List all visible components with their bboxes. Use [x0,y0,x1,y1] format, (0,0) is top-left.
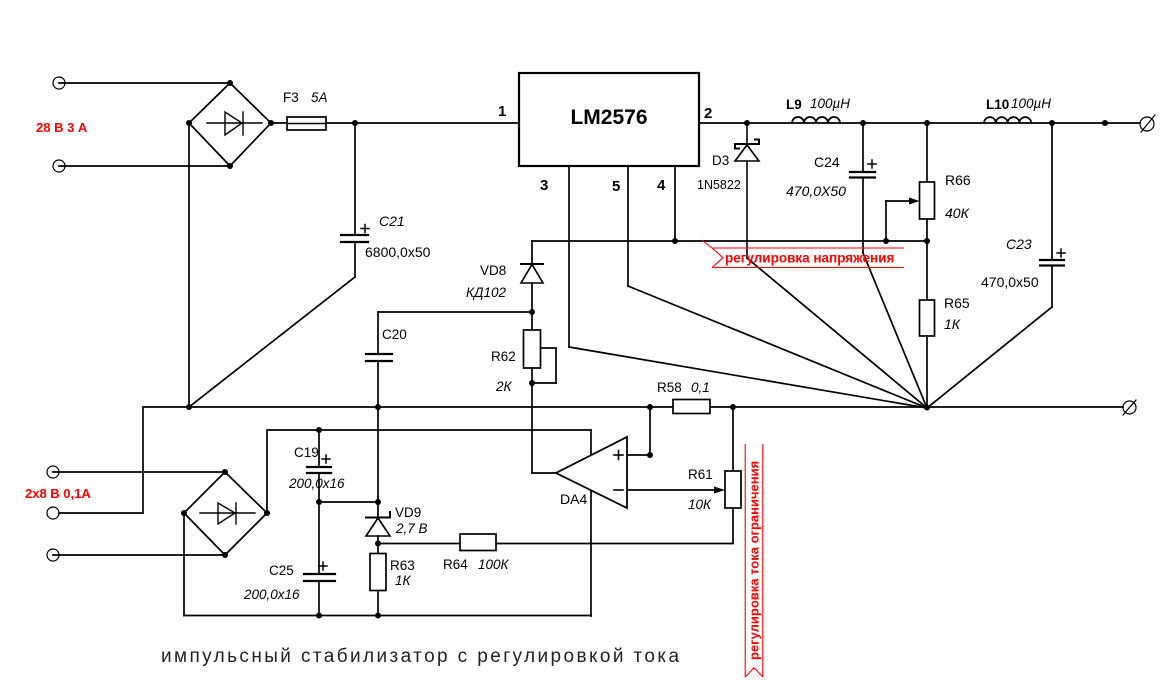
diode D3 1N5822 [735,123,759,258]
node R66 wiper to feedback [883,238,889,244]
wire C23 diagonal to star point [927,307,1052,408]
svg-text:C24: C24 [814,154,840,170]
svg-text:5A: 5A [311,90,328,105]
wire C25 bottom to rail [318,581,320,616]
wire R63 bottom to rail [377,591,379,616]
node bridge2 right [264,510,270,516]
node bus R58 right [730,404,736,410]
svg-text:C23: C23 [1006,236,1032,252]
inductor L9 [792,117,840,123]
node feedback R66 bottom [924,238,930,244]
R62 wiper rheostat link [532,348,556,383]
svg-text:R61: R61 [688,467,713,482]
pin 3 diagonal to star point [569,347,927,408]
pin 4 wire [674,166,676,241]
capacitor C20 [366,354,392,361]
svg-text:F3: F3 [283,90,299,105]
svg-text:200,0x16: 200,0x16 [243,587,300,602]
svg-text:1N5822: 1N5822 [697,178,741,192]
svg-text:R62: R62 [491,349,516,364]
bridge rectifier 2 diamond [184,472,267,555]
input terminal X1 bottom [53,160,65,172]
op-amp plus symbol [614,451,623,460]
wire C21 diagonal to ground bus [189,277,355,407]
resistor R63 [370,554,386,591]
node bridge1 bottom [227,163,233,169]
node VD9 R63 R64 [375,541,381,547]
wire terminal1 to bridge top [59,82,230,84]
output terminal top [1140,115,1155,132]
input terminal X2 a [47,466,59,478]
potentiometer R62 [524,330,541,368]
C24 plus sign [868,160,876,168]
wire VD8 to C20 node [531,283,533,330]
svg-text:3: 3 [540,177,548,194]
svg-text:КД102: КД102 [466,285,506,300]
svg-text:470,0X50: 470,0X50 [786,183,846,199]
svg-text:VD9: VD9 [395,505,421,520]
svg-text:R66: R66 [945,172,971,188]
node bridge2 top [222,469,228,475]
bottom rail wire [184,615,591,617]
svg-text:1: 1 [498,103,506,120]
node R66 top [924,120,930,126]
op-amp positive input wire [627,407,650,455]
pin 5 wire [627,166,629,286]
node R62 wiper [529,380,535,386]
op-amp negative input wire to R61 wiper [627,487,725,494]
node VD9 top [375,499,381,505]
IC U1 LM2576 box [519,73,699,166]
svg-text:2,7 В: 2,7 В [395,521,428,536]
star point node [924,405,930,411]
svg-text:R64: R64 [443,557,468,572]
op-amp DA4 hidden crossing wire x=591 [590,430,592,616]
wire terminal2 to bridge bottom [59,165,230,167]
capacitor C19 [307,467,331,473]
wire terminal X2a to bridge2 top [53,471,225,473]
capacitor C23 lead [1051,123,1053,260]
svg-text:D3: D3 [712,153,729,168]
potentiometer R61 [725,407,741,543]
svg-text:10К: 10К [688,497,712,512]
wire to R66 [926,123,928,182]
shunt resistor R58 [673,400,710,414]
node bridge2 left [181,510,187,516]
input terminal X2 c [47,549,59,561]
svg-text:C20: C20 [382,327,407,342]
fuse F3 [287,117,326,130]
svg-text:2К: 2К [495,379,513,394]
op-amp output wire [532,472,556,474]
capacitor C21 lead [354,123,356,235]
wire R62 bottom to op-amp output [531,368,533,473]
wire C24 bottom [862,178,864,254]
capacitor C19 lead [318,430,320,467]
C19 plus sign [322,455,330,463]
svg-text:100К: 100К [478,557,510,572]
node before output terminal [1102,120,1108,126]
wire C19 bottom [318,473,320,574]
svg-text:DA4: DA4 [560,491,587,507]
svg-text:470,0x50: 470,0x50 [981,274,1039,290]
wire bridge1 left corner down to bus [188,123,190,407]
wire bridge2 right corner up [267,430,591,513]
node pin4 feedback [672,238,678,244]
wire bridge2 left corner to bottom rail [183,513,185,616]
diode VD8 [521,264,543,283]
capacitor C24 [850,172,875,178]
pin 5 diagonal to star point [628,286,927,408]
diode VD8 chain top lead [531,241,533,264]
red callout voltage adjust ribbon [702,240,904,268]
wire C24 diagonal to star point [863,253,927,408]
pin 2 output wire [699,122,1140,124]
wire D3 diagonal to star point [747,258,927,408]
svg-text:5: 5 [612,178,620,195]
node C19 bottom [316,499,322,505]
svg-text:C19: C19 [294,445,319,460]
svg-text:L10: L10 [986,97,1009,112]
inductor L10 [984,117,1031,123]
node VD8 C20 [529,309,535,315]
wire VD9 bottom [377,536,379,554]
svg-text:200,0x16: 200,0x16 [288,476,345,491]
bridge rectifier VD (28V) diamond [189,83,271,166]
svg-text:LM2576: LM2576 [570,106,647,129]
node C23 top [1049,120,1055,126]
wire C23 bottom [1051,266,1053,308]
svg-text:R58: R58 [657,380,682,395]
node after L9 [860,120,866,126]
svg-text:VD8: VD8 [480,263,506,278]
svg-text:0,1: 0,1 [691,380,710,395]
node rail R63 [375,613,381,619]
wire C19 node to VD9 node [319,501,378,503]
node rail C25 [316,613,322,619]
svg-text:C21: C21 [379,213,405,229]
svg-text:R63: R63 [390,558,415,573]
node D3 top [744,120,750,126]
node after fuse [352,120,358,126]
node bridge1 right [268,120,274,126]
input terminal X2 b [47,507,59,519]
svg-text:4: 4 [657,177,666,194]
wire R64 to VD9 node [378,543,460,545]
svg-text:100µH: 100µH [1011,96,1051,111]
svg-text:1К: 1К [944,316,961,332]
capacitor C20 lead [377,312,379,354]
node bus bridge1 [186,404,192,410]
svg-text:6800,0x50: 6800,0x50 [365,244,431,260]
svg-text:L9: L9 [786,97,802,112]
node bridge2 bottom [222,552,228,558]
bridge1 internal diode [207,112,262,135]
potentiometer R66 [920,182,935,219]
node bus R58 left [647,404,653,410]
capacitor C21 [341,235,368,242]
svg-text:40К: 40К [945,205,970,221]
C23 plus sign [1057,249,1065,257]
wire R66 bottom to node [926,219,928,300]
svg-text:регулировка напряжения: регулировка напряжения [725,251,894,266]
input terminal X1 top [53,77,65,89]
red callout current limit ribbon [745,444,763,677]
wire R61 bottom to R64 [496,543,733,545]
capacitor C20 top wire [378,311,532,313]
resistor R64 [460,534,496,551]
svg-text:импульсный стабилизатор с регу: импульсный стабилизатор с регулировкой т… [161,646,681,667]
capacitor C24 lead [862,123,864,172]
node bus C20 [375,404,381,410]
node plus input [647,452,653,458]
svg-text:C25: C25 [269,563,294,578]
capacitor C23 [1040,260,1064,266]
op-amp minus symbol [614,489,623,491]
wire fuse to pin1 [326,122,519,124]
C25 plus sign [319,562,327,570]
svg-text:1К: 1К [395,573,412,588]
C21 plus sign [361,225,369,233]
node C19 top [316,427,322,433]
feedback wire y=241 [532,240,927,242]
zener diode VD9 [366,512,390,536]
wire bridge right corner to fuse [271,122,287,124]
wire bus to VD9 [377,407,379,517]
pin 3 wire [568,166,570,347]
node bridge1 left [186,120,192,126]
R66 wiper arrow [886,198,920,242]
wire R65 bottom to star point [926,336,928,408]
resistor R65 [920,300,935,336]
capacitor C25 [304,574,335,581]
svg-text:100µH: 100µH [810,96,850,111]
node bridge1 top [227,80,233,86]
svg-text:регулировка тока ограничения: регулировка тока ограничения [747,461,762,660]
svg-text:2: 2 [704,105,712,122]
bridge2 internal diode [200,503,255,524]
output terminal bottom [1123,400,1136,415]
op-amp DA4 triangle [556,437,627,508]
wire C21 bottom [354,242,356,277]
svg-text:28 В 3 А: 28 В 3 А [36,120,88,135]
ground bus wire [59,407,1123,513]
svg-text:R65: R65 [944,295,970,311]
wire C20 bottom to bus [377,361,379,407]
svg-text:2х8 В 0,1А: 2х8 В 0,1А [25,486,91,501]
wire terminal X2c to bridge2 bottom [53,554,225,556]
